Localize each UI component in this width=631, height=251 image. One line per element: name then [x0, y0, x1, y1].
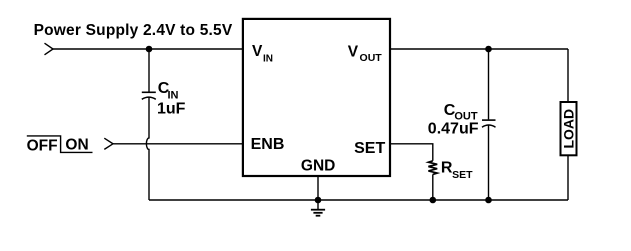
wire: U1 GND pin down to ground rail — [317, 177, 319, 200]
ground rail wire — [149, 199, 568, 201]
logic waveform label: OFF (high) / ON (low) — [27, 136, 93, 154]
wire: U1 SET pin to RSET top — [390, 144, 433, 161]
svg-text:0.47uF: 0.47uF — [428, 120, 479, 137]
load block — [561, 102, 577, 155]
junction node: VIN / CIN — [146, 46, 153, 53]
junction node: COUT / ground rail — [485, 197, 492, 204]
capacitor C_OUT — [482, 120, 496, 127]
wire: CIN bottom down to ground rail, with hop over ENB wire — [146, 97, 149, 200]
wire: power input to U1 VIN pin — [53, 48, 242, 50]
svg-text:ON: ON — [65, 136, 88, 153]
input terminal arrow (power input) — [45, 43, 54, 55]
wire: junction down to COUT top plate — [488, 49, 490, 119]
wire: junction down to CIN top plate — [148, 49, 150, 92]
svg-text:1uF: 1uF — [157, 100, 186, 117]
svg-text:GND: GND — [301, 158, 335, 175]
wire: U1 VOUT pin to LOAD branch — [390, 48, 568, 50]
input terminal arrow (ENB control) — [104, 138, 113, 149]
wire: RSET bottom to ground rail — [432, 174, 434, 200]
junction node: RSET / ground rail — [430, 197, 437, 204]
junction node: GND / ground rail — [315, 197, 322, 204]
svg-text:LOAD: LOAD — [561, 109, 577, 149]
ground symbol — [311, 200, 325, 216]
svg-text:ENB: ENB — [251, 136, 285, 153]
svg-text:OFF: OFF — [27, 137, 58, 154]
wire: LOAD bottom to ground rail — [567, 155, 569, 200]
wire: COUT bottom down to ground rail — [488, 125, 490, 200]
capacitor C_IN — [142, 92, 156, 99]
resistor R_SET — [428, 161, 437, 175]
regulator U1 body — [243, 19, 390, 176]
svg-text:SET: SET — [354, 140, 385, 157]
svg-text:Power Supply 2.4V to 5.5V: Power Supply 2.4V to 5.5V — [34, 22, 233, 39]
wire: ENB control input to U1 ENB pin — [113, 143, 242, 145]
junction node: VOUT / COUT — [485, 46, 492, 53]
wire: LOAD top (from VOUT rail) — [567, 49, 569, 102]
